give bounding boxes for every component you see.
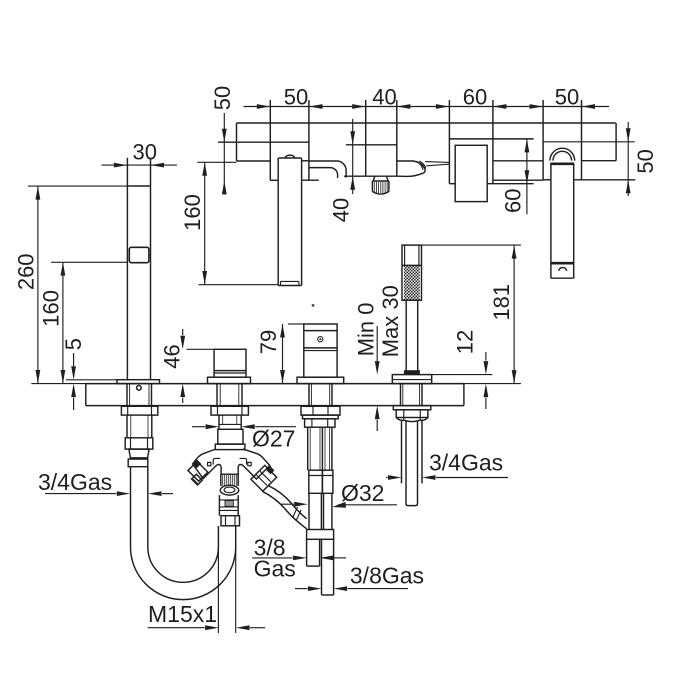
svg-text:Gas: Gas <box>254 556 296 582</box>
svg-text:Max 30: Max 30 <box>378 285 403 357</box>
svg-text:160: 160 <box>39 290 64 327</box>
svg-text:30: 30 <box>133 140 157 165</box>
svg-text:160: 160 <box>180 194 205 231</box>
svg-text:260: 260 <box>14 253 39 290</box>
svg-text:Ø27: Ø27 <box>252 426 295 452</box>
svg-text:46: 46 <box>160 344 185 368</box>
svg-text:40: 40 <box>329 198 354 222</box>
svg-text:60: 60 <box>463 85 487 110</box>
svg-text:50: 50 <box>555 85 579 110</box>
svg-text:50: 50 <box>284 85 308 110</box>
svg-text:Min 0: Min 0 <box>353 303 378 357</box>
svg-text:40: 40 <box>372 85 396 110</box>
svg-text:50: 50 <box>210 86 235 110</box>
svg-text:50: 50 <box>633 149 658 173</box>
svg-text:12: 12 <box>453 330 478 354</box>
svg-text:79: 79 <box>256 330 281 354</box>
svg-text:3/8Gas: 3/8Gas <box>350 563 424 589</box>
svg-text:3/4Gas: 3/4Gas <box>429 450 503 476</box>
svg-text:Ø32: Ø32 <box>341 480 384 506</box>
svg-text:5: 5 <box>61 338 86 350</box>
svg-text:M15x1: M15x1 <box>148 601 217 627</box>
svg-text:60: 60 <box>501 189 526 213</box>
svg-text:181: 181 <box>489 284 514 321</box>
svg-text:3/4Gas: 3/4Gas <box>38 469 112 495</box>
